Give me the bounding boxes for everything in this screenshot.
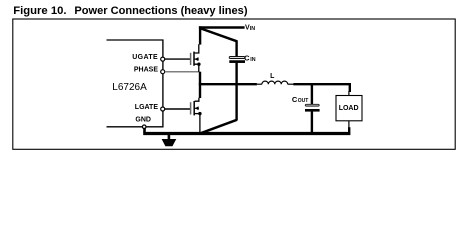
svg-text:GND: GND [135,117,151,124]
wire heavy CIN bottom leg [235,63,237,121]
svg-text:LGATE: LGATE [135,104,159,111]
pin circle UGATE [161,57,165,61]
Q2 source lead [195,113,200,115]
COUT top plate [305,104,319,106]
wire heavy switch node to inductor [199,83,257,85]
transistor Q2 low-side MOSFET [191,98,202,133]
Q1 source junction dot [197,62,200,65]
L lead-in thin [257,83,262,85]
capacitor C2 COUT [292,95,320,111]
LOAD box [336,96,362,121]
Q1 source lead [194,64,198,72]
wire heavy CIN top leg [235,40,237,56]
svg-text:OUT: OUT [298,98,309,104]
wire LGATE pin to Q2 gate [165,108,190,110]
Q2 channel bar [193,101,195,115]
Q1 gate bar [190,53,192,65]
wire heavy diagonal VIN to CIN [200,28,237,41]
pin circle LGATE [161,107,165,111]
pin circle PHASE [161,70,165,74]
svg-text:IN: IN [250,57,255,63]
wire thin LOAD bottom [348,121,350,128]
figure title [13,5,248,17]
wire heavy GND pin leg to bus [143,128,146,133]
wire heavy output line [293,83,351,85]
Q2 drain lead [195,98,199,102]
Q2 body lead with arrow [195,107,199,109]
pin circle GND [142,125,146,129]
COUT bottom plate [305,109,320,112]
figure frame [13,19,455,149]
svg-text:Figure 10.: Figure 10. [13,5,66,17]
svg-text:L: L [270,73,275,80]
CIN bottom plate [229,60,245,63]
wire thin into LOAD top [348,91,350,96]
inductor L1 [257,73,294,84]
Q1 drain lead [194,44,198,53]
Q1 channel bar [193,52,195,66]
wire heavy switch node vertical (Q1 source to Q2 drain) [199,72,201,98]
Q1 body lead with arrow [194,58,198,60]
wire heavy VIN corner down to Q1 drain [199,26,201,44]
wire PHASE pin to switch node (gray) [165,71,199,73]
node VIN heavy line [199,26,245,28]
wire Q2 source to ground bus (thin) [199,114,201,133]
wire heavy ground bus [143,132,350,135]
svg-text:UGATE: UGATE [132,54,158,61]
ground stem [168,134,171,139]
svg-text:PHASE: PHASE [134,66,158,73]
wire UGATE pin to Q1 gate [165,58,190,60]
CIN top plate [229,57,245,59]
ground triangle [162,139,177,146]
wire heavy COUT top leg [311,84,313,104]
svg-text:C: C [244,54,250,63]
wire heavy diagonal CIN leg to ground bus [202,120,237,133]
svg-text:LOAD: LOAD [339,105,359,112]
wire heavy LOAD bottom leg to bus [348,127,350,132]
L lead-out thin [288,83,294,85]
svg-text:IN: IN [250,26,255,32]
L coil [262,81,288,84]
wire heavy COUT bottom leg [311,111,313,132]
svg-text:L6726A: L6726A [112,82,147,93]
IC U1 L6726A controller box (open left side) [107,40,163,127]
transistor Q1 high-side MOSFET [191,44,201,72]
Q2 gate bar [190,102,192,114]
wire heavy output corner down to LOAD [349,83,351,92]
Q2 source junction dot [198,112,201,115]
ground symbol [162,134,177,146]
svg-text:Power Connections (heavy lines: Power Connections (heavy lines) [74,5,247,17]
capacitor C1 CIN [229,54,256,63]
